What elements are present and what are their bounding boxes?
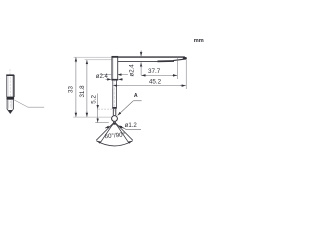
dimension dia 2.4 arm (vertical text) [128, 50, 141, 76]
extension line short left of 45.2 [112, 81, 114, 90]
collar block at top of shaft [111, 56, 118, 80]
tip stem [113, 109, 116, 116]
inner 60-degree angle arrows [105, 125, 124, 128]
extension line at arm end [185, 60, 187, 90]
svg-text:45.2: 45.2 [149, 78, 162, 85]
arm top line [112, 56, 185, 58]
shaft rod [113, 80, 117, 107]
detail view cone tip [7, 109, 14, 114]
fan bottom arc [97, 141, 133, 146]
tip angle fan 90-degree edges [96, 123, 133, 141]
svg-text:33: 33 [67, 86, 74, 93]
dimension 37.7 [141, 68, 177, 76]
detail view ferrule band [7, 97, 15, 100]
svg-text:ø1.2: ø1.2 [125, 122, 138, 129]
extension line bottom ball center [73, 116, 111, 118]
label dia 1.2 with leader [118, 122, 141, 130]
svg-text:ø2.4: ø2.4 [128, 64, 135, 77]
detail view leader line [14, 100, 44, 107]
dashed extension to rod joint [98, 108, 113, 110]
svg-text:A: A [134, 93, 138, 99]
detail view lower shank [7, 100, 13, 109]
dimension 5.2 [91, 94, 98, 123]
cone stub below ball [113, 121, 116, 125]
svg-text:37.7: 37.7 [148, 68, 161, 75]
dimension dia 2.4 collar [96, 74, 128, 80]
extension line at nose tip 37.7 [177, 57, 179, 79]
dimension 45.2 [113, 78, 186, 85]
unit note "mm" [194, 38, 204, 44]
angle label 60/90 deg [104, 131, 125, 140]
vertical centerline of stylus shaft [114, 58, 116, 112]
extension line top for 33 [74, 56, 112, 58]
detail view stylus tip body (left, cut off) [6, 69, 14, 108]
svg-text:5.2: 5.2 [91, 95, 98, 104]
extension line top for 31.8 [85, 59, 112, 61]
svg-text:31.8: 31.8 [79, 85, 86, 98]
rod joint band [112, 107, 117, 109]
tip angle fan 60-degree edges [100, 123, 128, 143]
extension line at cone apex [95, 122, 109, 124]
svg-text:ø2.4: ø2.4 [96, 74, 109, 80]
label A [118, 93, 142, 115]
arm bottom line [118, 61, 164, 63]
svg-text:mm: mm [194, 38, 204, 44]
arc end arrows [97, 141, 132, 142]
svg-text:60°/90°: 60°/90° [104, 131, 125, 140]
stylus ball [112, 116, 118, 122]
dimension 33 [67, 57, 76, 117]
dimension 31.8 [79, 60, 87, 117]
nose underside taper [158, 57, 188, 62]
